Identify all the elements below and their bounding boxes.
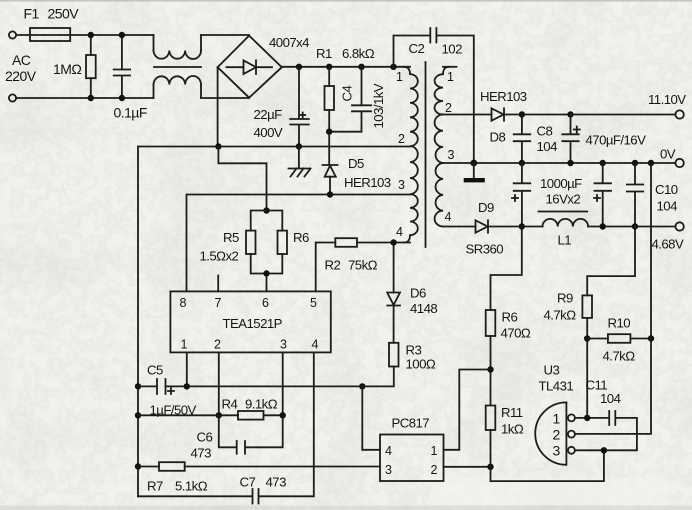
svg-text:HER103: HER103 — [480, 89, 527, 104]
node 1M bottom — [88, 95, 94, 101]
fuse F1 — [30, 28, 70, 41]
svg-text:L1: L1 — [558, 233, 572, 248]
wire PC817 pin1 — [444, 370, 491, 450]
node C10 top — [632, 160, 638, 166]
svg-text:4.68V: 4.68V — [652, 237, 684, 252]
svg-text:R10: R10 — [608, 316, 631, 331]
svg-text:75kΩ: 75kΩ — [348, 258, 378, 273]
ground symbol — [289, 147, 310, 169]
terminal AC line top — [9, 31, 16, 38]
transformer primary winding — [404, 67, 418, 243]
svg-text:C2: C2 — [409, 41, 425, 56]
capacitor C10 104 — [627, 163, 643, 227]
capacitor 1000uF no.1 — [514, 163, 531, 227]
wire secondary pin2 to D8 — [443, 114, 492, 116]
node 470uF bottom — [567, 160, 573, 166]
resistor R11 1k — [486, 406, 496, 431]
secondary pin1 stub — [443, 66, 457, 68]
primary ground rail — [138, 146, 410, 148]
node pin1/R9 — [584, 415, 590, 421]
svg-text:470Ω: 470Ω — [501, 326, 531, 341]
wire pin1 stub — [186, 352, 188, 386]
svg-text:F1: F1 — [24, 6, 40, 22]
svg-text:4: 4 — [312, 338, 319, 352]
drain rail to primary pin3 — [187, 195, 411, 292]
node R1/C4 junction — [326, 129, 332, 135]
svg-text:1MΩ: 1MΩ — [53, 61, 81, 77]
svg-text:16Vx2: 16Vx2 — [546, 192, 581, 207]
svg-text:104: 104 — [600, 391, 621, 406]
svg-text:4: 4 — [385, 444, 392, 458]
svg-text:R6: R6 — [502, 310, 518, 325]
wire 0V drop to TL431 pin2 — [575, 163, 651, 434]
svg-text:R2: R2 — [325, 258, 341, 273]
svg-text:C6: C6 — [197, 430, 213, 445]
wire pin2 stub — [218, 352, 220, 415]
resistor 1M — [90, 35, 92, 55]
svg-text:R1: R1 — [316, 46, 332, 61]
common-mode choke upper winding — [154, 35, 202, 51]
svg-text:1: 1 — [396, 70, 403, 84]
resistor R9 4.7k — [582, 295, 592, 318]
pin 1 circle — [568, 414, 575, 421]
node R9/R10 — [584, 335, 590, 341]
transformer secondary winding — [435, 67, 449, 115]
svg-text:104: 104 — [657, 199, 678, 214]
scan edge top — [0, 0, 692, 2]
node cap bottom — [119, 95, 125, 101]
svg-text:6: 6 — [262, 296, 269, 310]
svg-text:TEA1521P: TEA1521P — [223, 316, 283, 331]
svg-text:1.5Ωx2: 1.5Ωx2 — [200, 249, 239, 264]
svg-text:2: 2 — [431, 463, 438, 477]
resistor R6 470 — [486, 310, 496, 336]
diode D5 HER103 — [323, 132, 338, 165]
node primary pin4 / D6 — [390, 239, 396, 245]
node 22uF bottom — [296, 143, 302, 149]
node bridge minus on rail — [215, 143, 221, 149]
resistor R4 9.1k — [238, 411, 264, 420]
wire pin5 to R2 — [316, 243, 336, 292]
bottom rail with C7 — [138, 352, 314, 503]
pin 2 circle — [568, 431, 575, 438]
wire secondary pin4 to D9 — [443, 226, 476, 228]
node C4 top — [358, 64, 364, 70]
svg-text:3: 3 — [448, 148, 455, 162]
svg-text:2: 2 — [445, 101, 452, 115]
capacitor C4 103/1kV — [329, 67, 371, 132]
node R3 rail / PC817 branch — [359, 383, 365, 389]
inductor L1 — [543, 219, 589, 227]
capacitor 1000uF no.2 — [595, 163, 612, 227]
svg-text:D8: D8 — [490, 130, 506, 145]
wire top AC — [16, 34, 153, 36]
svg-text:C7: C7 — [240, 475, 256, 490]
diode D9 SR360 — [476, 220, 488, 232]
svg-text:1: 1 — [553, 411, 561, 427]
svg-text:220V: 220V — [5, 68, 37, 84]
node R1 top — [326, 64, 332, 70]
wire PC817 pin2 — [444, 466, 491, 468]
wire cathode rail to TL431 — [491, 450, 604, 481]
svg-text:470µF/16V: 470µF/16V — [586, 133, 647, 148]
0V rail — [443, 162, 675, 164]
node pin2/R4 — [216, 412, 222, 418]
svg-text:400V: 400V — [254, 125, 283, 140]
node R6/R11/PC817 pin1 — [487, 366, 493, 372]
svg-text:C10: C10 — [655, 182, 678, 197]
terminal AC line bottom — [9, 94, 16, 101]
svg-text:4: 4 — [445, 210, 452, 224]
svg-text:3: 3 — [385, 463, 392, 477]
pin 7 stub — [217, 276, 219, 292]
terminal 0V — [675, 159, 683, 167]
pin 3 circle — [568, 447, 575, 454]
resistor R6 primary — [278, 231, 288, 254]
svg-text:103/1kV: 103/1kV — [371, 83, 386, 128]
node R5/R6 top — [263, 207, 269, 213]
terminal 11.10V — [675, 110, 683, 118]
svg-text:5.1kΩ: 5.1kΩ — [175, 479, 208, 494]
wire choke to bridge top — [201, 34, 249, 36]
node cap2 bottom — [600, 223, 606, 229]
svg-text:R6: R6 — [293, 230, 309, 245]
svg-text:8: 8 — [180, 296, 187, 310]
svg-text:3: 3 — [280, 338, 287, 352]
node D5 anode on drain rail — [327, 191, 333, 197]
svg-text:C8: C8 — [537, 124, 553, 139]
svg-text:3: 3 — [553, 443, 561, 459]
svg-text:1000µF: 1000µF — [540, 176, 582, 191]
secondary ground bar — [473, 163, 475, 178]
diode D8 HER103 — [492, 108, 504, 120]
svg-text:D6: D6 — [410, 286, 426, 301]
R7 rail — [138, 466, 159, 468]
node pin3/R4 — [280, 412, 286, 418]
node left/R4 rail — [135, 412, 141, 418]
svg-text:R5: R5 — [223, 230, 239, 245]
capacitor 22uF/400V — [290, 67, 309, 147]
wire choke to bridge bottom — [201, 97, 249, 99]
resistor R2 75k — [335, 238, 357, 247]
node pin1 on C5 rail — [184, 383, 190, 389]
svg-text:D9: D9 — [478, 200, 494, 215]
svg-text:R4: R4 — [222, 397, 238, 412]
op-amp U1 TEA1521P box — [170, 291, 330, 352]
capacitor C6 473 loop — [219, 415, 283, 453]
svg-text:3: 3 — [398, 178, 405, 192]
svg-text:0.1µF: 0.1µF — [114, 105, 147, 121]
svg-text:0V: 0V — [660, 147, 676, 162]
node 22uF top — [296, 64, 302, 70]
wire TL431 pin1 to C11 — [575, 411, 637, 450]
svg-text:9.1kΩ: 9.1kΩ — [245, 397, 278, 412]
resistor R5 — [251, 211, 283, 231]
node R10 right on 0V drop — [648, 335, 654, 341]
node C10 bottom / R9 branch — [632, 223, 638, 229]
svg-text:6.8kΩ: 6.8kΩ — [342, 46, 375, 61]
svg-text:22µF: 22µF — [254, 107, 283, 122]
svg-text:R11: R11 — [501, 405, 523, 420]
svg-text:1: 1 — [181, 338, 188, 352]
capacitor C5 1uF/50V — [138, 379, 362, 394]
transformer core — [425, 62, 427, 247]
node feedback 0V — [648, 160, 654, 166]
svg-text:11.10V: 11.10V — [648, 92, 686, 107]
node left/C5 rail — [135, 383, 141, 389]
resistor R7 5.1k — [159, 462, 185, 471]
choke core — [154, 66, 201, 68]
svg-text:4.7kΩ: 4.7kΩ — [544, 308, 577, 323]
svg-text:4148: 4148 — [410, 301, 437, 316]
node C8 top — [519, 111, 525, 117]
svg-text:D5: D5 — [348, 156, 364, 171]
svg-text:5: 5 — [310, 296, 317, 310]
wire bottom AC — [16, 97, 153, 99]
svg-text:1: 1 — [431, 444, 438, 458]
wire pin3 stub — [282, 352, 284, 415]
svg-text:2: 2 — [553, 427, 561, 443]
wire bridge plus to HV rail — [282, 66, 410, 68]
svg-text:AC: AC — [12, 52, 31, 68]
svg-text:473: 473 — [266, 475, 287, 490]
svg-text:4007x4: 4007x4 — [269, 35, 309, 50]
node fuse/1M top — [88, 32, 94, 38]
svg-text:2: 2 — [398, 132, 405, 146]
capacitor C2 102 loop — [394, 28, 474, 163]
svg-text:7: 7 — [215, 296, 222, 310]
svg-text:102: 102 — [442, 42, 463, 57]
transistor U3 TL431 body — [535, 402, 566, 464]
svg-text:U3: U3 — [544, 363, 560, 378]
common-mode choke lower winding — [154, 85, 202, 99]
wire bridge minus down — [217, 67, 219, 146]
node cap2 top — [600, 160, 606, 166]
wire jog to R5/R6 — [218, 147, 266, 211]
svg-text:4.7kΩ: 4.7kΩ — [603, 349, 636, 364]
node PC817 pin2 / R11 — [487, 464, 493, 470]
svg-text:TL431: TL431 — [539, 379, 574, 394]
capacitor C8 104 — [514, 115, 531, 164]
node C2/ground on 0V rail — [470, 160, 477, 167]
svg-text:104: 104 — [537, 139, 558, 154]
svg-text:R7: R7 — [147, 479, 163, 494]
node TL431 pin3 — [601, 447, 607, 453]
svg-text:SR360: SR360 — [466, 242, 504, 257]
wire R9 from 4.68V — [587, 227, 635, 296]
R4 rail — [138, 414, 238, 416]
svg-text:R3: R3 — [406, 343, 422, 358]
svg-text:1kΩ: 1kΩ — [501, 422, 524, 437]
svg-text:250V: 250V — [48, 6, 80, 22]
faint erased watermark box bottom right — [432, 477, 668, 505]
capacitor 470uF/16V — [562, 115, 578, 164]
capacitor 0.1uF — [114, 35, 130, 98]
node R5/R6 bottom — [263, 270, 269, 276]
svg-text:100Ω: 100Ω — [406, 357, 436, 372]
node left/R7 rail — [135, 463, 141, 469]
svg-text:HER103: HER103 — [344, 175, 391, 190]
svg-text:C4: C4 — [340, 86, 355, 102]
svg-text:1: 1 — [447, 70, 454, 84]
scan smudge bottom — [0, 506, 692, 510]
svg-text:PC817: PC817 — [392, 416, 430, 431]
node C2 branch — [390, 64, 396, 70]
node L1 input / R6 branch — [519, 223, 525, 229]
svg-text:4: 4 — [396, 225, 403, 239]
terminal 4.68V — [675, 222, 683, 230]
node 470uF top — [567, 111, 573, 117]
resistor R3 100 — [389, 343, 399, 367]
svg-text:473: 473 — [191, 446, 212, 461]
node cap top — [119, 32, 125, 38]
node C8 bottom — [519, 160, 525, 166]
svg-text:2: 2 — [214, 338, 221, 352]
svg-text:R9: R9 — [557, 291, 573, 306]
resistor R1 — [328, 67, 330, 86]
diode D6 4148 — [393, 243, 395, 293]
bridge rectifier 4007x4 — [218, 36, 282, 98]
wire to PC817 pin4 — [362, 386, 380, 449]
left ground vertical — [137, 147, 139, 497]
wire L1 node down to R6 — [491, 227, 522, 311]
resistor R10 4.7k — [587, 338, 608, 340]
svg-text:C5: C5 — [147, 363, 163, 378]
opto U2 PC817 box — [380, 435, 444, 482]
